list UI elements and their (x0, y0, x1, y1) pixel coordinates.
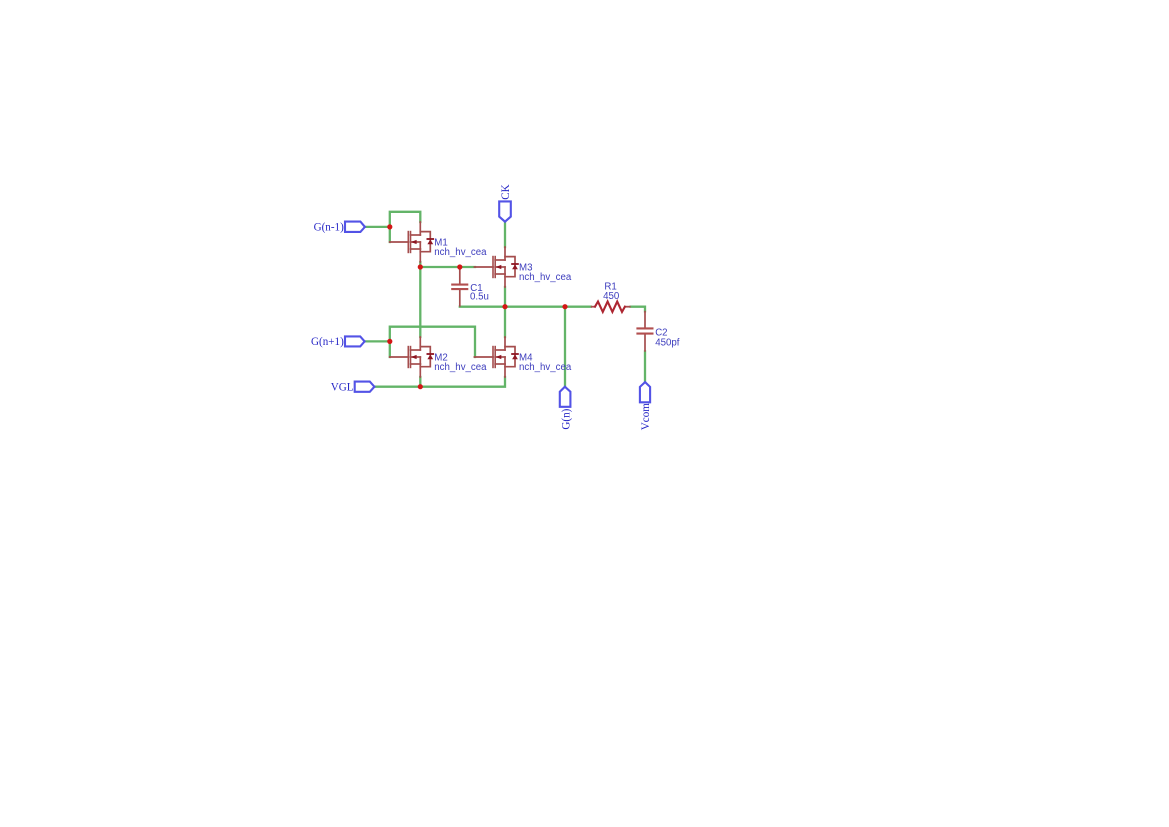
svg-text:CK: CK (500, 184, 512, 199)
junction G(n-1) (387, 224, 392, 229)
capacitor C1 top lead (459, 267, 461, 284)
junction node B at M3 source (502, 304, 507, 309)
wire node A down to M2 drain (419, 267, 421, 337)
wire R1 to C2 corner (631, 307, 645, 312)
svg-text:450pf: 450pf (655, 337, 680, 348)
wire M3 source / M4 drain vertical (504, 287, 506, 337)
wire G(n-1) port to junction (365, 226, 390, 228)
resistor R1 zigzag (595, 302, 625, 312)
port G(n) (560, 387, 571, 407)
wire C2 bottom to Vcom port (644, 351, 646, 382)
junction G(n+1) (387, 339, 392, 344)
transistor M1 nch_hv_cea (390, 222, 434, 262)
capacitor C2 top lead (644, 311, 646, 328)
junction VGL rail (418, 384, 423, 389)
svg-text:nch_hv_cea: nch_hv_cea (519, 272, 572, 283)
svg-text:450: 450 (603, 291, 620, 302)
svg-text:G(n+1): G(n+1) (311, 336, 344, 348)
wire G(n+1) port to junction (365, 340, 390, 342)
svg-text:VGL: VGL (331, 381, 354, 393)
wire CK to M3 drain (504, 222, 506, 247)
junction C1 top (457, 264, 462, 269)
port G(n+1) (345, 336, 365, 346)
port VGL (355, 382, 375, 392)
port G(n-1) (345, 222, 365, 232)
wire M1 gate-drain loop (390, 212, 421, 227)
transistor M3 nch_hv_cea (474, 247, 518, 287)
wire VGL rail (374, 377, 505, 387)
wire G(n-1) junction down to M1 gate (389, 227, 391, 242)
svg-text:nch_hv_cea: nch_hv_cea (434, 362, 487, 373)
wire G(n+1) junction up and over to M4 gate (390, 327, 475, 357)
wire G(n+1) junction to M2 gate (389, 341, 391, 357)
svg-text:nch_hv_cea: nch_hv_cea (434, 247, 487, 258)
transistor M2 nch_hv_cea (390, 337, 434, 377)
svg-text:G(n-1): G(n-1) (314, 222, 344, 234)
capacitor C2 plates (636, 327, 653, 329)
transistor M4 nch_hv_cea (474, 337, 518, 377)
capacitor C1 bottom lead (459, 290, 461, 307)
junction G(n) tap (562, 304, 567, 309)
svg-text:G(n): G(n) (560, 408, 572, 429)
svg-text:0.5u: 0.5u (470, 291, 489, 302)
junction node A at M1 source (418, 264, 423, 269)
wire node B to G(n) port (564, 307, 566, 387)
resistor R1 lead stubs (591, 306, 596, 308)
capacitor C1 plates (451, 284, 468, 286)
wire node A row: M1 source to C1 to M3 gate (420, 262, 475, 267)
port CK (499, 201, 511, 221)
capacitor C2 bottom lead (644, 334, 646, 351)
svg-text:nch_hv_cea: nch_hv_cea (519, 362, 572, 373)
wire node B row: C1 bottom to R1 (460, 306, 591, 308)
port Vcom (640, 382, 650, 402)
wire M2 source to VGL rail (419, 377, 421, 387)
svg-text:Vcom: Vcom (640, 403, 652, 430)
